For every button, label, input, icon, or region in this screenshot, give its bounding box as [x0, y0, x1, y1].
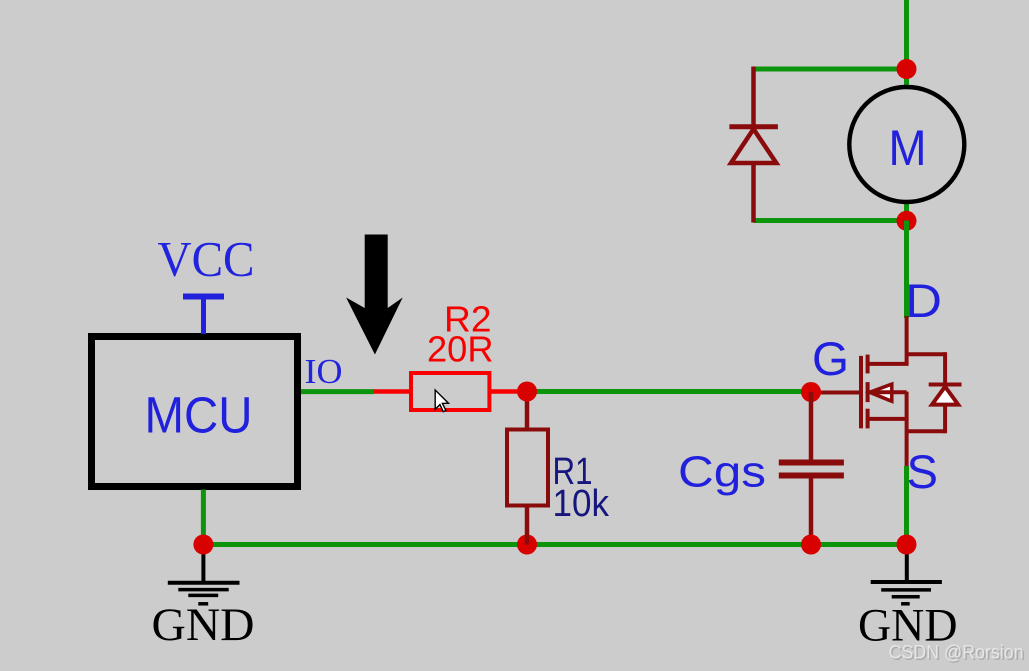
label MCU	[145, 387, 253, 444]
power VCC symbol	[183, 297, 224, 335]
capacitor Cgs	[779, 392, 844, 545]
watermark	[889, 643, 1026, 666]
MCU U1 box	[92, 337, 298, 487]
motor M1	[849, 69, 964, 221]
svg-text:IO: IO	[305, 352, 343, 391]
resistor R1	[507, 392, 548, 545]
node: rail R1 junction	[517, 535, 537, 555]
pin label G	[812, 332, 849, 385]
node: motor top junction	[897, 59, 917, 79]
wire: top horizontal to flyback diode	[754, 67, 907, 72]
svg-text:CSDN @Rorsion: CSDN @Rorsion	[889, 643, 1024, 664]
wire: top supply vertical into motor node	[904, 0, 909, 69]
node: gate junction	[801, 382, 821, 402]
node: R2/R1 junction	[517, 382, 537, 402]
svg-text:D: D	[905, 274, 942, 327]
annotation: big black arrow	[346, 235, 403, 355]
transistor Q1 N-MOSFET	[811, 316, 945, 468]
wire: drain wire	[904, 221, 909, 319]
wire: MCU ground wire	[201, 490, 206, 545]
label GND right	[858, 600, 958, 652]
resistor R2 highlighted	[373, 373, 528, 410]
label R2	[444, 299, 492, 340]
wire: bottom horizontal from flyback diode	[754, 218, 907, 223]
svg-text:20R: 20R	[427, 329, 494, 370]
label Cgs	[678, 448, 766, 497]
pin label S	[907, 445, 939, 498]
label R1	[553, 451, 593, 493]
svg-text:MCU: MCU	[145, 387, 253, 444]
wire: ground rail	[203, 542, 906, 547]
svg-text:Cgs: Cgs	[678, 448, 766, 497]
svg-text:S: S	[907, 445, 939, 498]
label GND left	[152, 599, 255, 651]
diode: MOSFET body diode	[929, 352, 962, 433]
ground symbol left	[168, 545, 240, 604]
svg-text:VCC: VCC	[158, 231, 255, 287]
svg-text:GND: GND	[152, 599, 255, 651]
svg-text:G: G	[812, 332, 849, 385]
node: rail source junction	[897, 535, 917, 555]
node: motor bottom junction	[897, 211, 917, 231]
ground symbol right	[871, 545, 942, 604]
wire: gate net from R2 to gate	[527, 389, 811, 394]
pin label D	[905, 274, 942, 327]
mouse cursor	[435, 390, 448, 412]
label VCC	[158, 231, 255, 287]
wire: MCU IO to R2	[301, 389, 374, 394]
label 20R	[427, 329, 494, 370]
label 10k	[553, 483, 610, 525]
diode D1 flyback	[729, 67, 778, 223]
wire: source wire	[904, 466, 909, 545]
svg-text:10k: 10k	[553, 483, 610, 525]
pin label IO	[305, 352, 343, 391]
node: rail left junction	[193, 535, 213, 555]
svg-text:M: M	[889, 120, 927, 176]
node: rail Cgs junction	[801, 535, 821, 555]
